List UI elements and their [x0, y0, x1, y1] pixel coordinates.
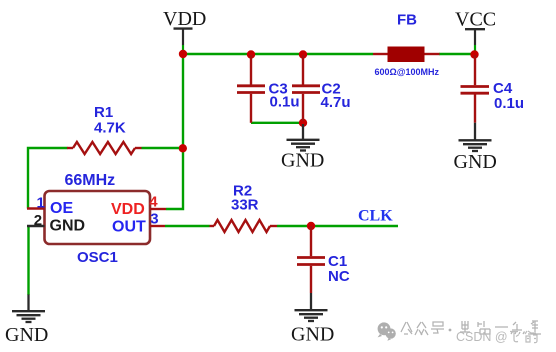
svg-text:CSDN @: CSDN @ [456, 330, 508, 344]
svg-text:33R: 33R [231, 197, 259, 214]
label OSC1 [77, 249, 118, 266]
pin 1 stub OE [27, 207, 45, 209]
wire FB right to VCC node [439, 53, 475, 55]
svg-text:0.1u: 0.1u [270, 94, 300, 111]
wire pin3 OUT to R2 [165, 225, 210, 227]
svg-text:OSC1: OSC1 [77, 249, 118, 266]
wire C3 bottom to C2 bottom [251, 122, 303, 124]
power port VCC [455, 9, 496, 55]
watermark text gongzhonghao dianlu yidiantong [401, 321, 541, 335]
label C2 [322, 81, 341, 98]
pin number 3 [150, 211, 158, 228]
pin number 1 [37, 195, 45, 212]
net label CLK [358, 208, 393, 225]
node junction R1 right [179, 144, 187, 152]
value NC [328, 268, 350, 285]
pin name OUT [112, 218, 146, 235]
label R2 [233, 183, 252, 200]
svg-text:NC: NC [328, 268, 350, 285]
power port VDD [163, 8, 206, 54]
svg-text:4: 4 [149, 194, 158, 211]
wire VDD vertical down to pin4 corner [166, 54, 183, 209]
pin name VDD [111, 201, 145, 218]
svg-text:CLK: CLK [358, 208, 393, 225]
svg-text:2: 2 [34, 212, 42, 229]
svg-text:GND: GND [5, 324, 48, 346]
value 0.1u (C4) [494, 95, 524, 112]
value 4.7u [321, 94, 351, 111]
label C3 [269, 81, 288, 98]
op-amp U1 oscillator OSC1 body [45, 191, 151, 244]
svg-text:600Ω@100MHz: 600Ω@100MHz [375, 67, 440, 77]
resistor R1 [67, 142, 179, 154]
capacitor C3 [237, 55, 265, 123]
pin 3 stub OUT [150, 225, 165, 227]
value 600ohm@100MHz [375, 67, 440, 77]
value 0.1u (C3) [270, 94, 300, 111]
label FB [397, 12, 417, 29]
pin number 4 [149, 194, 158, 211]
wire R1 left and down to pin1 [28, 148, 68, 209]
capacitor C4 [461, 55, 490, 123]
wire top rail VDD to FB [183, 53, 373, 55]
label C1 [328, 253, 347, 270]
svg-text:GND: GND [281, 150, 324, 172]
ground GND (under C4) [454, 123, 497, 173]
svg-text:GND: GND [50, 217, 86, 234]
label R1 [94, 104, 113, 121]
ground GND (under C2) [281, 124, 324, 172]
wire R2 to CLK end [277, 225, 398, 227]
pin name OE [50, 200, 73, 217]
svg-text:FB: FB [397, 12, 417, 29]
svg-text:66MHz: 66MHz [65, 172, 116, 189]
svg-text:R1: R1 [94, 104, 113, 121]
node junction C2 bottom GND [299, 119, 307, 127]
node junction VCC top [470, 50, 478, 58]
svg-text:VDD: VDD [111, 201, 145, 218]
svg-text:VDD: VDD [163, 8, 206, 30]
svg-text:4.7u: 4.7u [321, 94, 351, 111]
node junction C3 top [247, 50, 255, 58]
node junction VDD rail [179, 50, 187, 58]
svg-text:3: 3 [150, 211, 158, 228]
node junction C2 top [299, 50, 307, 58]
pin 4 stub VDD [150, 208, 166, 210]
ferrite bead FB [373, 47, 440, 63]
pin name GND [50, 217, 86, 234]
capacitor C1 [297, 226, 325, 293]
svg-text:GND: GND [454, 151, 497, 173]
svg-text:0.1u: 0.1u [494, 95, 524, 112]
svg-text:OUT: OUT [112, 218, 146, 235]
node junction C1 top CLK [307, 222, 315, 230]
pin 2 stub GND [27, 225, 45, 227]
svg-text:VCC: VCC [455, 9, 496, 31]
svg-text:1: 1 [37, 195, 45, 212]
ground GND (under C1) [291, 293, 334, 346]
svg-text:4.7K: 4.7K [94, 120, 126, 137]
value 4.7K [94, 120, 126, 137]
wire pin2 down to GND [27, 226, 29, 295]
value 33R [231, 197, 259, 214]
capacitor C2 [292, 55, 320, 121]
resistor R2 [210, 220, 278, 232]
label 66MHz [65, 172, 116, 189]
svg-text:GND: GND [291, 324, 334, 346]
svg-text:OE: OE [50, 200, 73, 217]
pin number 2 [34, 212, 42, 229]
label C4 [493, 80, 513, 97]
ground GND (under OSC pin2) [5, 295, 48, 347]
watermark text CSDN at feige [456, 330, 508, 344]
watermark wechat icon [378, 322, 396, 340]
